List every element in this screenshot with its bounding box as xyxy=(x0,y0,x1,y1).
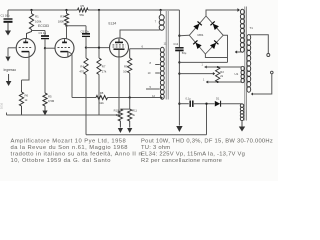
arrow heater 2 xyxy=(206,80,208,83)
wire pin10 stub xyxy=(155,72,160,74)
transformer TU primary lower xyxy=(160,47,164,99)
svg-text:50µ: 50µ xyxy=(182,51,187,55)
wire ladder drop xyxy=(129,98,131,110)
label D1 xyxy=(216,96,220,100)
svg-text:12k: 12k xyxy=(99,101,104,105)
capacitor C5 xyxy=(82,34,90,37)
wire ground bus bottom xyxy=(86,104,207,135)
svg-text:10k: 10k xyxy=(123,69,128,73)
wire input drop to C1 xyxy=(7,10,9,18)
ground under R11 xyxy=(127,128,132,133)
capacitor C3 xyxy=(41,36,49,39)
potentiometer R2 xyxy=(216,67,220,82)
wire V2 plate xyxy=(66,26,68,39)
arrow to T1 xyxy=(237,8,240,12)
node rail-R7 xyxy=(98,9,100,11)
label heater a xyxy=(202,64,204,67)
label R11 5k xyxy=(132,109,137,117)
node V2 grid xyxy=(44,47,46,49)
capacitor C11 xyxy=(190,101,193,107)
label R9 10k xyxy=(123,65,128,74)
wire HV return stub xyxy=(235,50,241,53)
caption right xyxy=(141,139,273,164)
ground under B+ line xyxy=(176,126,182,132)
node bridge plus xyxy=(178,35,180,37)
svg-text:da la Revue du Son n.61, Maggi: da la Revue du Son n.61, Maggio 1968 xyxy=(11,145,128,151)
wire bridge bottom xyxy=(205,54,227,58)
wire R2 wiper xyxy=(179,72,215,75)
wire EL34 cathode xyxy=(118,57,120,115)
wire R7 drop xyxy=(98,10,100,58)
node V2 plate xyxy=(65,25,67,27)
label pin 6 xyxy=(142,44,144,48)
resistor R9 xyxy=(128,49,132,98)
node wiper join xyxy=(178,72,180,74)
resistor R10 xyxy=(118,109,122,127)
node rail-R1 xyxy=(30,9,32,11)
ground under C1 xyxy=(5,27,11,36)
tube V2 ECC83b xyxy=(55,39,74,58)
svg-text:R3: R3 xyxy=(60,15,64,19)
wire grid leak drop xyxy=(44,48,46,93)
label C1 16µ xyxy=(1,14,10,18)
wire EL34 plate xyxy=(120,30,160,39)
node fb junction xyxy=(129,96,131,98)
wire heater 1 xyxy=(205,66,242,68)
node bias tee xyxy=(178,103,180,105)
resistor R5 grid leak xyxy=(43,93,47,110)
wire B+ vertical xyxy=(178,10,180,126)
label heater b xyxy=(203,79,205,82)
arrow heater 1 xyxy=(205,65,207,68)
svg-text:R2: R2 xyxy=(220,70,224,74)
ground under R10 xyxy=(118,128,123,133)
resistor R8 feedback xyxy=(96,95,108,99)
label C3 1µ xyxy=(39,31,47,35)
wire grid node to EL34 xyxy=(86,47,109,49)
svg-text:R7: R7 xyxy=(102,65,106,69)
label Ingresso xyxy=(4,68,17,72)
wire plate to C5 xyxy=(67,26,87,33)
wire R4 drop to bus xyxy=(85,75,87,135)
label R6 1k xyxy=(25,93,29,102)
label 11 xyxy=(164,42,167,46)
wire B+ top rail xyxy=(8,9,179,11)
wire V2 cathode xyxy=(68,52,72,98)
label ECC83 xyxy=(38,24,49,28)
tube V3 EL34 xyxy=(110,38,129,57)
transformer T1 primary xyxy=(247,35,251,93)
svg-text:10, Ottobre 1959 da G. dal San: 10, Ottobre 1959 da G. dal Santo xyxy=(11,158,111,164)
transformer TU core xyxy=(166,11,168,100)
svg-text:R2 per cancellazione rumore: R2 per cancellazione rumore xyxy=(141,158,222,164)
arrow feedback to coil xyxy=(161,96,163,99)
label pin 7 xyxy=(155,20,157,24)
label R8 12k xyxy=(99,91,104,105)
label T1 xyxy=(250,26,254,30)
node bus join xyxy=(178,61,180,63)
wire V1 plate to C3 xyxy=(32,31,46,36)
wire C3 to V2 grid node xyxy=(44,39,46,48)
input arrow xyxy=(5,48,10,62)
node R2 top xyxy=(217,66,219,68)
svg-text:C1 16µ: C1 16µ xyxy=(1,14,10,18)
label M81 xyxy=(197,33,203,37)
svg-text:Amplificatore Mozart 10 Pye Lt: Amplificatore Mozart 10 Pye Ltd, 1958 xyxy=(11,139,127,145)
transformer TU primary upper xyxy=(159,15,164,31)
diode bridge BL xyxy=(193,40,202,49)
terminal mains 1 xyxy=(267,54,270,57)
wire grid node to V2 xyxy=(45,47,55,49)
svg-text:100k: 100k xyxy=(35,19,42,23)
svg-text:R11: R11 xyxy=(132,109,137,113)
svg-text:Ingresso: Ingresso xyxy=(4,68,17,72)
label R10 5k xyxy=(114,109,120,117)
wire V1 cathode xyxy=(22,53,30,90)
wire C5 to grid node xyxy=(85,37,87,47)
wire V1 grid lead xyxy=(8,47,16,49)
svg-text:EL34: EL34 xyxy=(109,22,117,26)
node R2 bottom xyxy=(217,81,219,83)
label U1 xyxy=(235,72,239,76)
transformer T1 HV winding xyxy=(240,9,244,52)
label pin 8 xyxy=(150,61,152,65)
watermark xyxy=(0,102,4,109)
svg-text:ECC83: ECC83 xyxy=(38,24,49,28)
svg-text:27k: 27k xyxy=(102,69,107,73)
label 0,5M xyxy=(48,94,55,103)
wire ground bus xyxy=(179,61,227,63)
svg-text:R10: R10 xyxy=(114,109,119,113)
capacitor C1 xyxy=(4,19,13,27)
svg-text:EL34: 225V Vp, 115mA Ia, -13,7: EL34: 225V Vp, 115mA Ia, -13,7V Vg xyxy=(141,152,245,158)
wire rail to TU xyxy=(160,10,162,15)
svg-text:C3 1µ: C3 1µ xyxy=(39,31,47,35)
label EL34 xyxy=(109,22,117,26)
wire pin5 lead xyxy=(146,88,160,90)
arrow mains xyxy=(251,92,253,95)
label pin 10 xyxy=(148,71,151,75)
svg-text:U1: U1 xyxy=(235,72,239,76)
wire pin8 stub xyxy=(155,64,160,66)
label pin 12 xyxy=(152,94,155,98)
transformer T1 bias winding xyxy=(240,104,243,121)
diode bridge TL xyxy=(193,21,202,30)
node rail-TU xyxy=(159,9,161,11)
label 50µ xyxy=(173,42,186,55)
label R5 56k xyxy=(80,4,85,17)
label R1 100k xyxy=(35,15,42,24)
wire mains top xyxy=(249,35,268,54)
wire bridge left xyxy=(179,34,189,36)
svg-text:11: 11 xyxy=(164,42,167,46)
svg-text:56k: 56k xyxy=(80,13,85,17)
label R2 xyxy=(220,70,224,78)
wire feedback xyxy=(72,97,96,99)
svg-text:0,5M: 0,5M xyxy=(48,99,55,103)
svg-text:Pout 10W, THD 0,3%, DF 15, B: Pout 10W, THD 0,3%, DF 15, BW 30-70.000H… xyxy=(141,139,273,145)
svg-text:0,1µ: 0,1µ xyxy=(186,97,192,101)
resistor R3 xyxy=(64,10,68,25)
resistor R11 xyxy=(128,109,132,127)
wire bridge top xyxy=(206,10,238,16)
bridge M81 diamond xyxy=(189,16,223,54)
node bias xyxy=(205,103,207,105)
terminal mains 2 xyxy=(271,71,274,74)
wire bias left xyxy=(179,103,188,105)
wire ladder bar xyxy=(120,108,129,110)
svg-text:R9: R9 xyxy=(124,65,128,69)
label R4 470 xyxy=(79,65,84,74)
diode bridge TR xyxy=(210,21,219,30)
diode bridge BR xyxy=(210,40,219,49)
caption left xyxy=(11,139,145,164)
resistor R4 xyxy=(84,48,88,75)
svg-text:TU: 3 ohm: TU: 3 ohm xyxy=(141,145,170,151)
svg-text:C5 50n: C5 50n xyxy=(81,29,90,33)
svg-text:R4: R4 xyxy=(80,65,84,69)
wire mains bottom xyxy=(252,74,272,94)
resistor R7 xyxy=(97,58,101,115)
svg-text:C12: C12 xyxy=(173,42,178,46)
resistor R6 cathode xyxy=(19,90,23,115)
diode D1 xyxy=(215,101,221,107)
svg-text:1016: 1016 xyxy=(0,102,4,109)
ground under input xyxy=(6,74,12,86)
svg-text:R8: R8 xyxy=(100,91,104,95)
wire heater 2 xyxy=(206,81,242,83)
svg-text:tradotto in italiano su alta f: tradotto in italiano su alta fedeltà, An… xyxy=(11,152,145,158)
wire bridge right xyxy=(223,35,227,62)
wire bias right xyxy=(221,103,242,106)
wire feedback right xyxy=(108,97,162,99)
label R3 180k xyxy=(58,15,65,24)
capacitor C10 reservoir xyxy=(175,48,183,51)
transformer T1 core xyxy=(245,7,247,121)
ground T1 bias xyxy=(239,121,245,132)
ground under grid leak xyxy=(42,110,47,116)
wire bias mid xyxy=(194,103,215,105)
resistor R5 rail xyxy=(78,8,89,12)
transformer T1 heater winding xyxy=(241,66,244,82)
node R7 grid cross xyxy=(98,46,100,48)
label pin 5 xyxy=(150,85,152,89)
svg-text:T1: T1 xyxy=(250,26,254,30)
svg-text:D1: D1 xyxy=(216,96,220,100)
svg-text:R5: R5 xyxy=(81,4,85,8)
tube V1 ECC83a xyxy=(16,39,35,58)
node EL34 grid xyxy=(85,46,87,48)
svg-text:180k: 180k xyxy=(58,19,65,23)
svg-text:R5: R5 xyxy=(48,94,52,98)
node rail-R3 xyxy=(65,9,67,11)
wire screen tap 6 xyxy=(130,48,160,50)
svg-text:470: 470 xyxy=(79,69,84,73)
label C5 50n xyxy=(81,29,90,33)
resistor R1 xyxy=(27,10,34,39)
label R7 27k xyxy=(102,65,107,74)
wire ground rail xyxy=(7,113,120,116)
svg-text:M81: M81 xyxy=(197,33,203,37)
label 0,1µ xyxy=(186,97,192,101)
svg-text:R6: R6 xyxy=(25,93,29,97)
svg-text:R1: R1 xyxy=(35,15,39,19)
